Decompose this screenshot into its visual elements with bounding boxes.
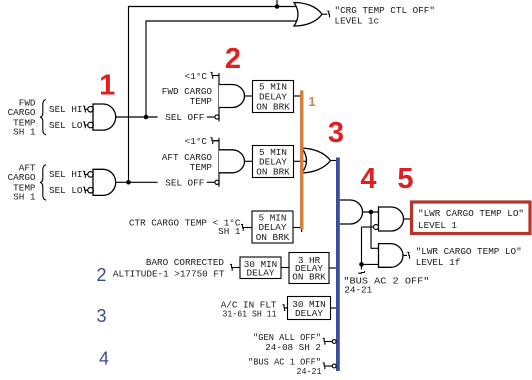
svg-text:SH 1: SH 1 — [218, 226, 241, 237]
svg-text:SEL HI: SEL HI — [49, 104, 82, 115]
svg-text:4: 4 — [360, 163, 376, 195]
svg-text:BARO CORRECTED: BARO CORRECTED — [146, 257, 225, 268]
svg-text:SEL OFF: SEL OFF — [165, 177, 204, 188]
svg-text:SH 1: SH 1 — [13, 127, 36, 138]
svg-text:1: 1 — [308, 94, 315, 109]
svg-text:ON BRK: ON BRK — [292, 272, 326, 283]
svg-text:ON BRK: ON BRK — [256, 232, 290, 243]
svg-text:2: 2 — [96, 265, 106, 285]
svg-text:5: 5 — [397, 163, 413, 195]
svg-text:"LWR CARGO TEMP LO": "LWR CARGO TEMP LO" — [418, 208, 524, 219]
svg-text:"CRG TEMP CTL OFF": "CRG TEMP CTL OFF" — [335, 5, 435, 16]
svg-text:3: 3 — [96, 306, 106, 326]
svg-text:"LWR CARGO TEMP LO": "LWR CARGO TEMP LO" — [416, 246, 522, 257]
svg-text:LEVEL 1: LEVEL 1 — [418, 220, 457, 231]
svg-text:ALTITUDE-1 >17750 FT: ALTITUDE-1 >17750 FT — [113, 269, 225, 280]
svg-text:SEL LO: SEL LO — [49, 185, 83, 196]
svg-text:SEL LO: SEL LO — [49, 120, 83, 131]
svg-text:ON BRK: ON BRK — [256, 101, 290, 112]
svg-text:24-21: 24-21 — [344, 285, 372, 296]
svg-text:3: 3 — [328, 117, 344, 149]
svg-text:31-61 SH 11: 31-61 SH 11 — [223, 308, 277, 319]
svg-text:DELAY: DELAY — [295, 308, 323, 319]
svg-text:<1°C: <1°C — [185, 136, 208, 147]
svg-text:24-08 SH 2: 24-08 SH 2 — [265, 342, 321, 353]
svg-text:2: 2 — [225, 43, 241, 75]
svg-text:DELAY: DELAY — [247, 268, 275, 279]
svg-text:4: 4 — [99, 349, 109, 369]
svg-text:ON BRK: ON BRK — [256, 166, 290, 177]
svg-text:1: 1 — [99, 70, 115, 102]
svg-text:TEMP: TEMP — [190, 96, 213, 107]
svg-text:LEVEL 1f: LEVEL 1f — [416, 257, 461, 268]
svg-text:LEVEL 1c: LEVEL 1c — [335, 15, 380, 26]
svg-text:24-21: 24-21 — [297, 366, 322, 377]
svg-text:<1°C: <1°C — [185, 71, 208, 82]
svg-text:TEMP: TEMP — [190, 162, 213, 173]
svg-text:SEL HI: SEL HI — [49, 169, 82, 180]
svg-text:SEL OFF: SEL OFF — [165, 112, 204, 123]
svg-text:SH 1: SH 1 — [13, 192, 36, 203]
